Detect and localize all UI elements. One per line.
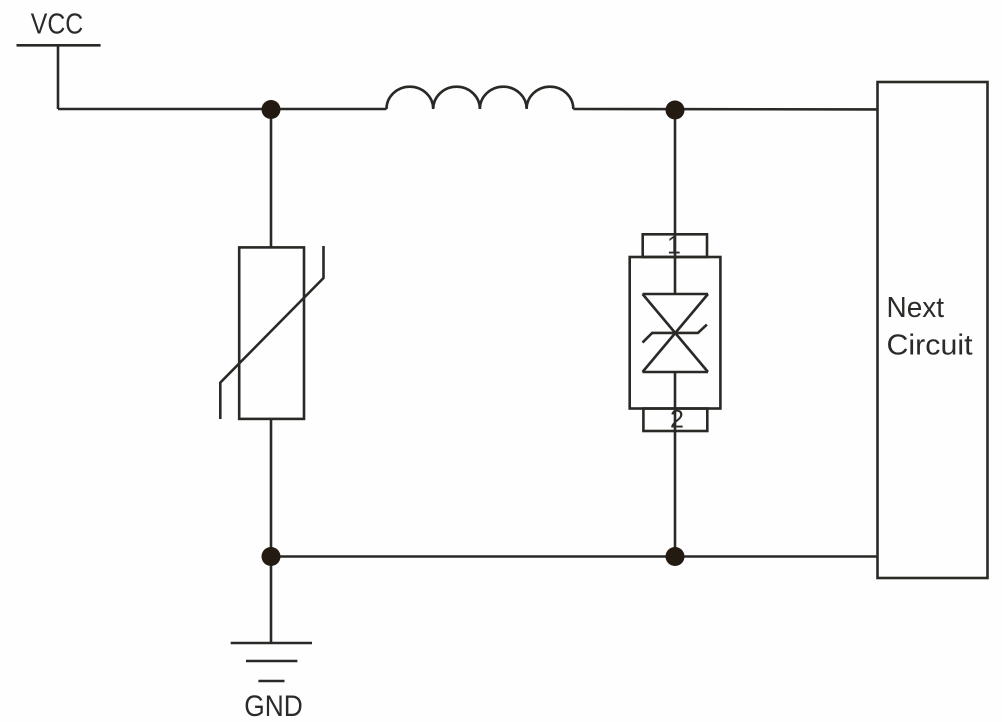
wire VCC drop [57,45,60,109]
varistor RV1 strike line [220,246,323,419]
svg-text:Circuit: Circuit [887,330,973,362]
wire varistor bottom lead [270,419,273,557]
ground bar 3 [258,680,284,683]
TVS D1 zener bar [643,325,707,343]
wire TVS internal bottom [674,372,677,409]
svg-text:1: 1 [667,232,681,260]
svg-text:VCC: VCC [31,9,84,41]
svg-text:GND: GND [244,690,303,722]
TVS D1 pin 1 box [643,234,707,257]
wire bottom rail [271,555,878,558]
block Next Circuit [878,82,988,578]
wire through pin 1 box [674,234,677,257]
node junction bottom right [666,547,685,566]
ground bar 2 [246,660,297,663]
TVS D1 body box [630,257,721,409]
wire varistor top lead [270,109,273,247]
svg-text:Next: Next [887,292,945,324]
inductor L1 [387,87,574,109]
node junction bottom left [262,547,281,566]
TVS D1 bowtie bottom edge [643,371,709,374]
wire through pin 2 box [674,409,677,432]
node junction top left [262,100,281,119]
TVS D1 bowtie diagonal 1 [643,294,709,372]
wire TVS bottom lead [674,431,677,557]
wire top rail right segment [573,108,877,111]
node junction top right [666,101,685,120]
VCC rail bar [17,44,101,47]
wire TVS internal top [674,257,677,294]
varistor RV1 body [239,247,304,419]
TVS D1 bowtie diagonal 2 [643,294,709,372]
svg-text:2: 2 [670,406,684,434]
TVS D1 pin 2 box [643,409,707,432]
wire ground lead [270,557,273,644]
ground bar 1 [231,642,312,645]
TVS D1 bowtie top edge [643,293,709,296]
wire top rail left segment [58,108,387,111]
wire TVS top lead [674,109,677,234]
